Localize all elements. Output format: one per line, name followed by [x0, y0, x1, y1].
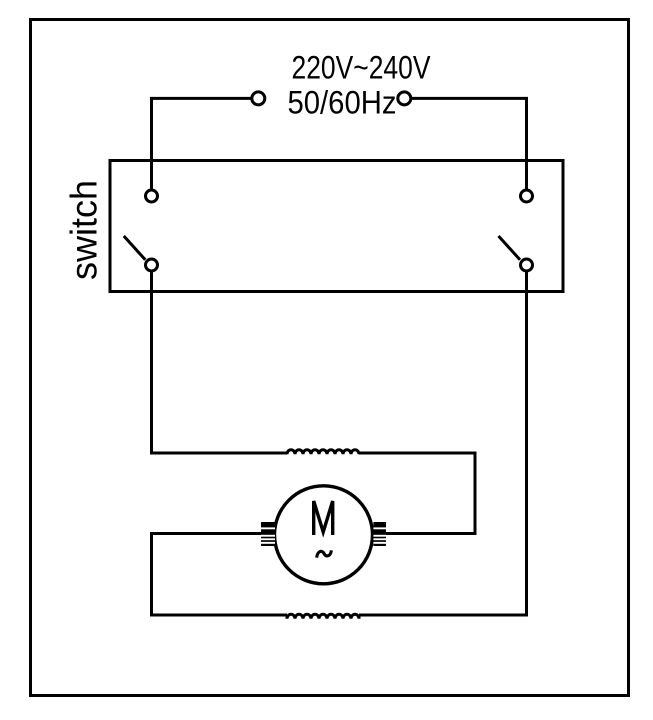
switch box enclosure: [110, 161, 563, 292]
switch pole S1 bottom contact: [146, 259, 158, 271]
wire: switch S1 down to field coil L1: [152, 272, 288, 453]
inductor L2 field coil: [287, 614, 359, 619]
motor M1 tilde (AC symbol): [317, 550, 332, 557]
switch pole S2 top contact: [521, 190, 533, 202]
svg-text:switch: switch: [64, 180, 105, 280]
switch pole S2 lever: [499, 236, 521, 260]
svg-text:220V~240V: 220V~240V: [292, 50, 432, 86]
terminal: supply plug right: [398, 92, 411, 105]
switch pole S1 lever: [124, 236, 146, 260]
wire: field coil L2 up to switch S2: [359, 272, 527, 615]
wire: motor left brush to field coil L2: [152, 534, 288, 616]
motor M1 right brush: [373, 522, 386, 546]
wire: supply left to switch pole S1: [152, 98, 252, 189]
motor M1 letter M: [314, 501, 333, 535]
switch pole S1 top contact: [146, 190, 158, 202]
wire: field coil L1 to motor right brush: [359, 453, 475, 534]
wire: supply right to switch pole S2: [411, 98, 527, 189]
svg-text:50/60Hz: 50/60Hz: [288, 85, 397, 121]
switch pole S2 bottom contact: [521, 259, 533, 271]
motor M1 left brush: [261, 522, 275, 546]
terminal: supply plug left: [252, 92, 265, 105]
motor M1 body: [275, 486, 373, 584]
inductor L1 field coil: [287, 450, 359, 455]
